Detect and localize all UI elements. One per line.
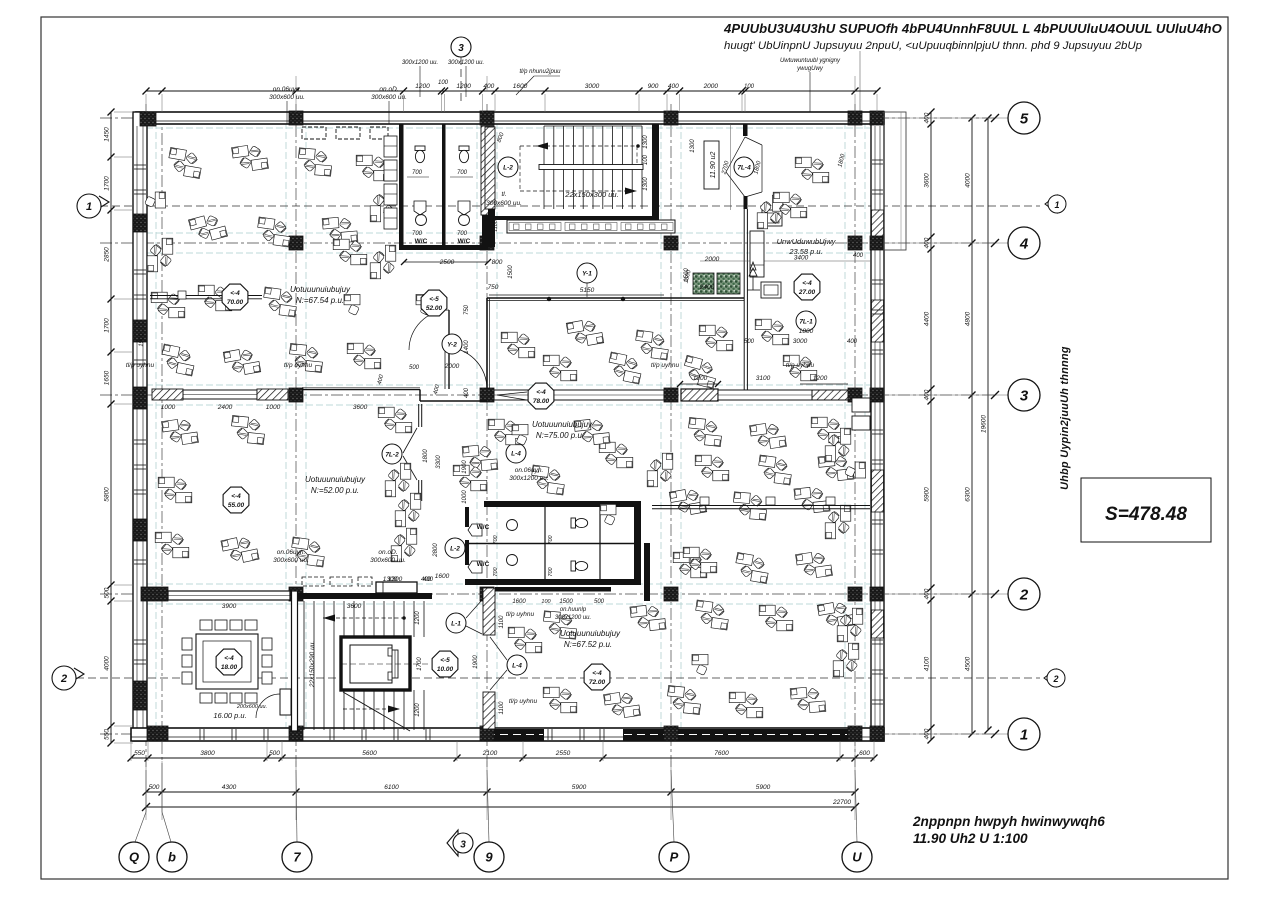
svg-text:300x600 uu.: 300x600 uu. (269, 94, 305, 101)
office front partition y=298 (487, 297, 744, 299)
top exterior wall (136, 112, 884, 124)
svg-text:1: 1 (86, 201, 92, 213)
cabinets along WC wall office1 (384, 136, 397, 157)
right wall hatched piers (872, 210, 884, 238)
desk counter mid-right office (652, 505, 870, 507)
svg-text:Uotuuunuiubujuy: Uotuuunuiubujuy (532, 420, 593, 429)
svg-text:3600: 3600 (924, 173, 931, 188)
desk counter office1 (150, 295, 262, 297)
svg-text:78.00: 78.00 (533, 398, 550, 405)
stair bottom walk lines (323, 617, 404, 619)
svg-text:4000: 4000 (965, 173, 972, 188)
bottom dimension chain 2 (146, 791, 855, 793)
WC mid block: north wall (484, 501, 641, 507)
fire escape balcony right top (884, 112, 906, 250)
svg-text:2800: 2800 (433, 543, 439, 558)
svg-text:19600: 19600 (981, 415, 988, 433)
WC top stall doors (414, 201, 426, 215)
axis circles right 5 (1008, 102, 1040, 134)
cyan beam offset dashed lines (135, 112, 137, 741)
wardrobe row below corridor (507, 220, 675, 233)
axis circle right 3 (1008, 379, 1040, 411)
door wedge office52 (403, 428, 417, 453)
badge N-4 center (506, 443, 526, 463)
svg-text:2850: 2850 (104, 247, 111, 263)
stair hall east wall (652, 124, 659, 216)
WC mid block: west walls + doors (465, 507, 469, 527)
svg-text:UnwUduwubUjwy: UnwUduwubUjwy (777, 237, 837, 246)
svg-text:3800: 3800 (200, 750, 215, 757)
svg-text:800: 800 (492, 259, 503, 266)
conference room north wall (168, 591, 290, 600)
svg-text:1200: 1200 (456, 83, 471, 90)
svg-text:1900: 1900 (139, 333, 145, 347)
bottom axis circles (119, 842, 149, 872)
top dimension chain (146, 90, 877, 92)
svg-text:11.90 u2: 11.90 u2 (710, 152, 717, 179)
svg-text:300x600 uu.: 300x600 uu. (371, 94, 407, 101)
svg-text:1600: 1600 (512, 599, 526, 605)
svg-text:7L-2: 7L-2 (385, 452, 399, 459)
vent shaft solid (376, 582, 417, 593)
svg-text:1300: 1300 (643, 135, 649, 149)
svg-text:tl/p uyhnu: tl/p uyhnu (284, 362, 313, 369)
svg-text:16.00 p.u.: 16.00 p.u. (213, 711, 246, 720)
svg-text:6300: 6300 (965, 487, 972, 502)
svg-text:1500: 1500 (508, 265, 514, 279)
right exterior wall (871, 112, 884, 741)
WC block top: divider wall (442, 124, 446, 246)
bottom dimension chain 1 (131, 757, 874, 759)
svg-text:2000: 2000 (704, 256, 720, 263)
svg-text:1700: 1700 (104, 176, 111, 191)
svg-text:W/C: W/C (458, 238, 471, 245)
WC block top: west wall (399, 124, 404, 250)
svg-text:7L-1: 7L-1 (799, 319, 813, 326)
svg-text:1900: 1900 (462, 460, 468, 474)
svg-text:1600: 1600 (513, 83, 528, 90)
svg-text:11.90 Uh2 U 1:100: 11.90 Uh2 U 1:100 (913, 831, 1028, 846)
svg-text:on.06uyn.: on.06uyn. (515, 467, 544, 474)
svg-text:1300: 1300 (383, 576, 398, 583)
stair hall west wall (hatched pier) (485, 127, 495, 209)
svg-text:1100: 1100 (493, 219, 499, 232)
armchairs sofa right wall (852, 398, 870, 412)
svg-text:750: 750 (488, 284, 499, 291)
svg-text:Y-2: Y-2 (447, 342, 457, 349)
wall left of elevator x=290 (292, 591, 298, 731)
svg-text:1000: 1000 (266, 404, 281, 411)
grid axis lines vertical (295, 104, 297, 770)
svg-text:55.00: 55.00 (228, 502, 245, 509)
corridor band y=389-401 center (302, 389, 420, 391)
WC top sinks (416, 215, 427, 226)
radiator hatch 2 right (812, 390, 848, 400)
svg-text:2100: 2100 (482, 750, 498, 757)
staircase bottom treads left flight (303, 601, 305, 730)
svg-text:700: 700 (412, 170, 423, 176)
svg-text:550: 550 (134, 750, 145, 757)
svg-text:<-4: <-4 (224, 655, 234, 662)
svg-text:3600: 3600 (353, 404, 368, 411)
svg-text:9: 9 (485, 850, 493, 865)
svg-text:500: 500 (409, 365, 420, 371)
svg-text:<-4: <-4 (592, 670, 602, 677)
staircase top: handrail (539, 165, 643, 170)
svg-text:<-4: <-4 (802, 280, 812, 287)
svg-text:900: 900 (648, 83, 659, 90)
office furniture desk pods (166, 147, 204, 178)
staircase top: walk line up (520, 145, 637, 147)
elevator block north wall (298, 593, 432, 599)
hatched pier axis G lower (483, 692, 495, 729)
svg-text:400: 400 (421, 577, 432, 583)
svg-text:<-5: <-5 (429, 296, 439, 303)
office52 east wall x=420 (418, 404, 420, 427)
svg-text:4100: 4100 (924, 656, 931, 671)
svg-text:L-2: L-2 (450, 546, 460, 553)
svg-text:N:=67.54 p.u.: N:=67.54 p.u. (296, 296, 344, 305)
svg-text:5150: 5150 (580, 287, 595, 294)
tall cabinet right room (750, 231, 764, 277)
section marker 1 left (77, 194, 101, 218)
svg-text:1200: 1200 (415, 611, 421, 625)
right inner dimension chain (930, 112, 932, 740)
svg-text:700: 700 (457, 231, 468, 237)
axis3 wall piers left (152, 389, 183, 400)
svg-text:W/C: W/C (477, 524, 490, 531)
right outer dimension chain (971, 118, 973, 734)
svg-text:2nppnpn hwpyh hwinwywqh6: 2nppnpn hwpyh hwinwywqh6 (912, 814, 1105, 829)
svg-text:27.00: 27.00 (798, 289, 816, 296)
svg-text:5900: 5900 (924, 487, 931, 502)
office west partition x=487 (y298-400) (486, 298, 488, 389)
room2 right west wall thin double (743, 209, 745, 392)
svg-text:1800: 1800 (799, 328, 814, 335)
svg-text:7L-4: 7L-4 (737, 165, 751, 172)
svg-text:700: 700 (412, 231, 423, 237)
svg-text:300x1200 uu.: 300x1200 uu. (509, 475, 549, 482)
armchair right room lower (761, 282, 781, 298)
svg-text:700: 700 (457, 170, 468, 176)
svg-text:22700: 22700 (832, 799, 851, 806)
svg-text:2000: 2000 (703, 83, 719, 90)
svg-text:72.00: 72.00 (589, 679, 606, 686)
svg-text:<-4: <-4 (230, 290, 240, 297)
svg-text:4300: 4300 (222, 784, 237, 791)
hatched pier axis G upper (483, 588, 495, 635)
svg-text:550: 550 (104, 729, 111, 740)
svg-text:L-2: L-2 (503, 165, 513, 172)
svg-text:4800: 4800 (965, 311, 972, 326)
svg-text:1200: 1200 (813, 375, 828, 382)
svg-text:on.06uyn.: on.06uyn. (277, 549, 306, 556)
svg-text:1650: 1650 (104, 370, 111, 385)
single desks (145, 192, 166, 208)
svg-text:70.00: 70.00 (227, 299, 244, 306)
svg-text:3000: 3000 (585, 83, 600, 90)
section marker 3 top (451, 37, 471, 57)
corridor south wall y=588 (495, 587, 611, 592)
svg-text:Uhbp Uypin2juuUh thnnng: Uhbp Uypin2juuUh thnnng (1059, 346, 1071, 490)
svg-text:700: 700 (493, 534, 499, 544)
svg-text:400: 400 (847, 339, 858, 345)
svg-text:750: 750 (464, 304, 470, 315)
svg-text:100: 100 (643, 154, 649, 165)
bottom exterior wall (131, 728, 884, 741)
octagon badges (222, 284, 248, 310)
top extension lines (145, 94, 147, 112)
svg-text:1300: 1300 (643, 177, 649, 191)
svg-text:U: U (852, 850, 862, 865)
svg-text:22x150x300 uu.: 22x150x300 uu. (564, 190, 618, 199)
svg-text:1: 1 (1054, 200, 1059, 210)
svg-text:Uotuuunuiubujuy: Uotuuunuiubujuy (560, 629, 621, 638)
svg-text:Uotuuunuiubujuy: Uotuuunuiubujuy (290, 285, 351, 294)
stair bottom diagonal cut (343, 692, 410, 731)
svg-text:300x1200 uu.: 300x1200 uu. (402, 60, 438, 66)
svg-text:700: 700 (548, 566, 554, 576)
svg-text:3400: 3400 (794, 255, 809, 262)
staircase top: walk line down (520, 190, 637, 192)
svg-text:Q: Q (129, 850, 139, 865)
svg-text:700: 700 (493, 566, 499, 576)
svg-text:7: 7 (293, 850, 301, 865)
svg-text:500: 500 (104, 587, 111, 598)
svg-text:L-1: L-1 (451, 621, 461, 628)
svg-text:5: 5 (1020, 110, 1029, 127)
svg-text:400: 400 (853, 253, 864, 259)
svg-text:4000: 4000 (104, 656, 111, 671)
bottom total dimension (146, 806, 855, 808)
section marker 3 bottom (447, 830, 458, 856)
conference door arc (256, 694, 280, 718)
svg-text:1200: 1200 (415, 83, 430, 90)
svg-text:2000: 2000 (444, 363, 460, 370)
left exterior wall (133, 112, 147, 741)
section marker 2 right (1044, 669, 1056, 687)
svg-text:3: 3 (460, 840, 466, 851)
svg-text:300x1200 uu.: 300x1200 uu. (555, 615, 591, 621)
svg-text:1100: 1100 (499, 615, 505, 629)
11.90 level box (704, 141, 719, 189)
svg-text:200x600 uu.: 200x600 uu. (236, 704, 267, 710)
title block separator (859, 51, 861, 112)
svg-text:1700: 1700 (104, 318, 111, 333)
svg-text:3: 3 (458, 43, 464, 54)
svg-text:1900: 1900 (473, 655, 479, 669)
svg-text:100: 100 (744, 84, 755, 90)
svg-text:W/C: W/C (477, 561, 490, 568)
svg-text:W/C: W/C (415, 238, 428, 245)
beams dashed above elevator (302, 577, 324, 586)
svg-text:5900: 5900 (572, 784, 587, 791)
svg-text:Uwtuwuntuubl ygnigny: Uwtuwuntuubl ygnigny (780, 58, 841, 64)
svg-text:huugt' UbUinpnU Jupsuyuu 2npuU: huugt' UbUinpnU Jupsuyuu 2npuU, <uUpuuqb… (724, 40, 1142, 52)
bottom-right office west wall (644, 543, 650, 601)
left wall window mullions (134, 164, 146, 166)
section marker 2 left (52, 666, 76, 690)
svg-text:100: 100 (438, 80, 449, 86)
section marker 1 right (1045, 195, 1057, 213)
svg-text:3: 3 (1020, 387, 1029, 404)
right wall window mullions (872, 159, 883, 161)
badge N-2 stair (498, 157, 518, 177)
dim line 3400 room right (700, 260, 870, 262)
svg-text:tl/p uyhnu: tl/p uyhnu (509, 698, 538, 705)
staircase bottom treads right flight lower (343, 690, 345, 730)
green planters (693, 273, 714, 294)
door arc office75 (445, 347, 487, 389)
elevator shaft (341, 637, 410, 690)
badge Dv-4 (734, 157, 754, 177)
svg-text:4500: 4500 (965, 656, 972, 671)
svg-text:1600: 1600 (435, 573, 450, 580)
svg-text:1450: 1450 (104, 127, 111, 142)
door wedge lines (726, 137, 745, 172)
bottom wall window mullions (199, 729, 201, 740)
badge V-2 (442, 334, 462, 354)
svg-text:2: 2 (1019, 586, 1029, 603)
grid axis lines horizontal (100, 117, 995, 119)
svg-text:500: 500 (594, 599, 605, 605)
axis circle right 1 (1008, 718, 1040, 750)
svg-text:1200: 1200 (693, 375, 708, 382)
corridor wall below stair (487, 216, 659, 220)
WC mid: middle divider (469, 543, 634, 545)
svg-text:tl.: tl. (501, 191, 506, 198)
svg-text:300x1200 uu.: 300x1200 uu. (448, 60, 484, 66)
radiator hatch at axis B (681, 389, 718, 401)
office52 east wall with door (448, 310, 450, 389)
svg-text:3100: 3100 (756, 375, 771, 382)
svg-text:2400: 2400 (699, 284, 715, 291)
svg-text:on.oD.: on.oD. (378, 549, 397, 556)
svg-text:4400: 4400 (924, 311, 931, 326)
plant symbol (749, 262, 757, 276)
svg-text:52.00: 52.00 (426, 305, 443, 312)
svg-text:600: 600 (859, 750, 870, 757)
svg-text:S=478.48: S=478.48 (1105, 504, 1187, 525)
svg-text:22x150x290 uu.: 22x150x290 uu. (309, 641, 316, 688)
svg-text:700: 700 (548, 534, 554, 544)
svg-text:3900: 3900 (222, 603, 237, 610)
svg-text:1500: 1500 (559, 599, 573, 605)
svg-text:1100: 1100 (499, 701, 505, 715)
axis circle right 2 (1008, 578, 1040, 610)
svg-text:tl/p uyhnu: tl/p uyhnu (506, 611, 535, 618)
svg-text:P: P (670, 850, 679, 865)
svg-text:4: 4 (1019, 235, 1029, 252)
badge Dv-1 (796, 311, 816, 331)
area box (1081, 478, 1211, 542)
svg-text:300x600 uu.: 300x600 uu. (370, 557, 406, 564)
bottom wall solid segments right (486, 729, 544, 741)
svg-text:100: 100 (541, 599, 551, 605)
svg-text:400: 400 (668, 83, 679, 90)
svg-text:400: 400 (483, 83, 494, 90)
svg-text:1000: 1000 (462, 490, 468, 504)
staircase bottom treads right flight upper (343, 601, 345, 637)
svg-text:6100: 6100 (384, 784, 399, 791)
elevator center dashline (341, 663, 430, 665)
section line 2-2 (76, 677, 1040, 679)
svg-text:b: b (168, 850, 176, 865)
WC mid block: south wall (465, 579, 641, 585)
svg-text:500: 500 (269, 750, 280, 757)
svg-text:5900: 5900 (756, 784, 771, 791)
WC mid fixtures (571, 518, 588, 528)
svg-text:400: 400 (464, 387, 470, 398)
svg-text:<-4: <-4 (536, 389, 546, 396)
svg-text:2500: 2500 (439, 259, 455, 266)
svg-text:500: 500 (149, 784, 160, 791)
badge N-4 bottom (507, 655, 527, 675)
WC top fixtures: toilet 1 (415, 146, 425, 163)
svg-text:L-4: L-4 (512, 663, 522, 670)
svg-text:3000: 3000 (793, 338, 808, 345)
badge V-1 (577, 263, 597, 283)
svg-text:300x600 uu.: 300x600 uu. (273, 557, 309, 564)
staircase top: treads (543, 126, 545, 209)
svg-text:1500: 1500 (684, 268, 690, 282)
section line 3-3 vertical (460, 57, 462, 104)
svg-text:<-5: <-5 (440, 657, 450, 664)
left dimension chain (110, 112, 112, 743)
svg-text:tl/p nhunu2jpuu: tl/p nhunu2jpuu (519, 69, 561, 75)
beams dashed top wall (302, 127, 326, 139)
badge N-1 (446, 613, 466, 633)
svg-text:5600: 5600 (362, 750, 377, 757)
svg-text:N:=75.00 p.u.: N:=75.00 p.u. (536, 431, 584, 440)
svg-text:ywugUwy: ywugUwy (796, 66, 824, 72)
WC top fixtures: toilet 2 (459, 146, 469, 163)
svg-text:7600: 7600 (714, 750, 729, 757)
svg-text:1000: 1000 (161, 404, 176, 411)
svg-text:N:=52.00 p.u.: N:=52.00 p.u. (311, 486, 359, 495)
svg-text:3600: 3600 (347, 603, 362, 610)
svg-text:Y-1: Y-1 (582, 271, 592, 278)
svg-text:2: 2 (60, 673, 67, 685)
svg-text:tl/p uyhnu: tl/p uyhnu (651, 362, 680, 369)
badge N-2 mid (445, 538, 465, 558)
svg-text:tl/p uyhnu: tl/p uyhnu (786, 362, 815, 369)
svg-text:1300: 1300 (690, 139, 696, 153)
conference table (196, 634, 258, 689)
svg-text:10.00: 10.00 (437, 666, 454, 673)
svg-text:1800: 1800 (423, 449, 429, 463)
badge Dv-2 left (382, 444, 402, 464)
svg-text:1200: 1200 (415, 703, 421, 717)
svg-text:4PUUbU3U4U3hU SUPUOfh 4bPU4Unn: 4PUUbU3U4U3hU SUPUOfh 4bPU4UnnhF8UUL L 4… (723, 21, 1222, 36)
svg-text:1: 1 (1020, 726, 1028, 743)
corridor band right: glazing (494, 390, 664, 400)
corridor east door stubs (743, 124, 748, 136)
armchair top right room (762, 210, 782, 226)
svg-text:N:=67.52 p.u.: N:=67.52 p.u. (564, 640, 612, 649)
svg-text:Uotuuunuiubujuy: Uotuuunuiubujuy (305, 475, 366, 484)
structural columns (140, 112, 156, 126)
section line 1-1 (100, 205, 1040, 207)
svg-text:<-4: <-4 (231, 493, 241, 500)
svg-text:2550: 2550 (555, 750, 571, 757)
svg-text:on.huunlp: on.huunlp (560, 607, 587, 613)
svg-text:1400: 1400 (464, 340, 470, 354)
svg-text:3300: 3300 (436, 455, 442, 469)
WC block top: east wall hatched pier (481, 126, 494, 215)
svg-text:L-4: L-4 (511, 451, 521, 458)
svg-text:18.00: 18.00 (221, 664, 238, 671)
